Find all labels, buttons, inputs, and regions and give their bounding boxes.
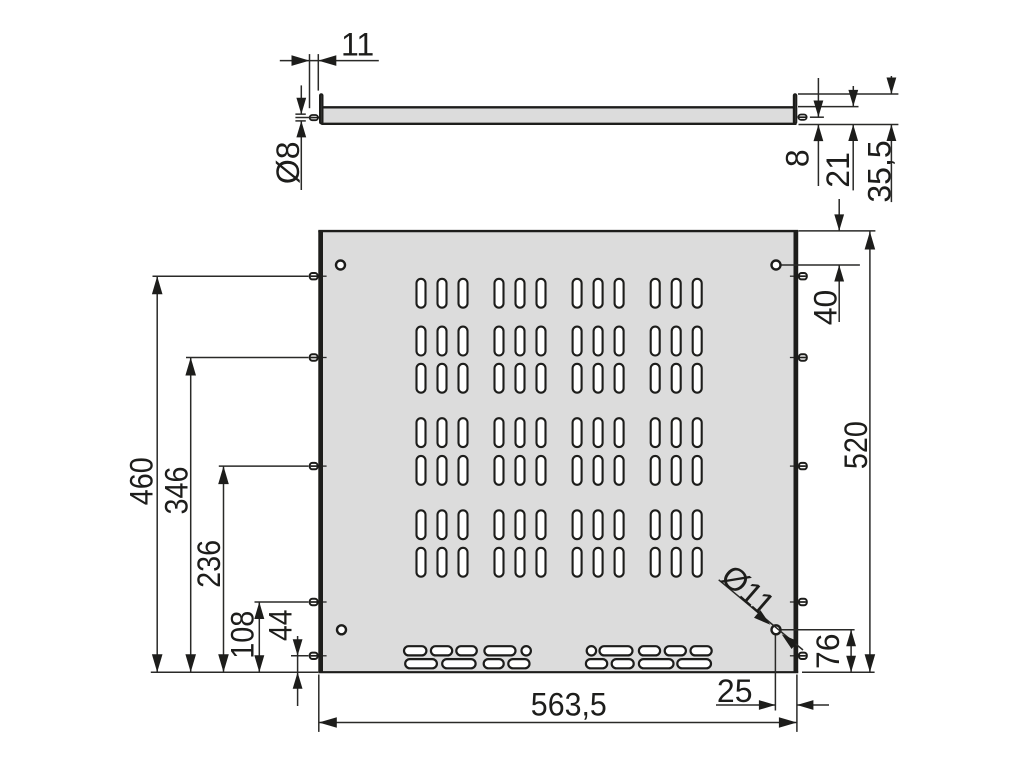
- dimension 236 bottom arrowhead: [218, 654, 229, 672]
- dimension 76 line: [850, 630, 852, 672]
- dimension 460 bottom arrowhead: [152, 654, 163, 672]
- front view bottom edge: [318, 671, 798, 673]
- side view top-of-plate reference line: [798, 106, 859, 108]
- dimension 25 left arrowhead: [759, 700, 776, 710]
- svg-text:236: 236: [191, 540, 227, 588]
- bottom cable slots left group: [404, 646, 531, 668]
- dimension 40 label: [808, 290, 844, 326]
- dimension 8 label: [779, 149, 815, 167]
- dimension 460 top arrowhead: [152, 276, 163, 294]
- dimension Ø8 vertical line below: [300, 121, 302, 190]
- svg-text:35,5: 35,5: [862, 140, 898, 202]
- dimension 44 line: [297, 636, 299, 706]
- dimension 563,5 right arrowhead: [779, 717, 797, 728]
- dimension 11 extension line at bracket face: [317, 54, 319, 91]
- bottom-left corner hole: [337, 625, 346, 634]
- pin 1 extension line: [153, 275, 309, 277]
- side view right end bracket tab: [794, 94, 796, 123]
- side view left pin (Ø8 stud): [310, 115, 320, 120]
- svg-text:21: 21: [820, 152, 856, 188]
- dimension 563,5 line: [319, 722, 797, 724]
- svg-text:40: 40: [808, 290, 844, 326]
- dimension 563,5 label: [531, 687, 607, 723]
- dimension 11 extension line at pin tip: [309, 54, 311, 108]
- dimension 35,5 upper arrowhead: [887, 78, 897, 95]
- front view top edge: [318, 230, 798, 232]
- dimension 40 upper line: [838, 199, 840, 231]
- dimension 25 left line: [716, 704, 775, 706]
- front view right flange edge (thick band): [794, 231, 799, 673]
- svg-text:25: 25: [717, 673, 753, 709]
- dimension 25 right arrowhead: [797, 700, 814, 710]
- dimension 21 upper line: [852, 86, 854, 106]
- dimension 11 dimension line: [280, 60, 379, 62]
- svg-text:76: 76: [810, 633, 846, 669]
- dimension 35,5 lower line: [890, 125, 892, 203]
- dimension 44 lower arrowhead: [293, 672, 303, 689]
- dimension 108 top arrowhead: [254, 602, 264, 619]
- pin 5 extension line: [291, 655, 309, 657]
- dimension 520 top arrowhead: [865, 232, 876, 250]
- svg-text:460: 460: [124, 457, 160, 505]
- dimension 21 lower arrowhead: [848, 125, 858, 142]
- ventilation slot field (4 groups x 3 cols x 7 rows): [417, 279, 702, 577]
- dimension 8 upper arrowhead: [814, 101, 824, 118]
- dimension 236 line: [223, 466, 225, 672]
- left edge extension line (bottom): [318, 675, 320, 732]
- dimension 44 upper arrowhead: [293, 639, 303, 656]
- dimension 35,5 upper line: [890, 76, 892, 94]
- side view top-of-bracket reference line: [798, 93, 898, 95]
- pin 3 extension line: [219, 465, 309, 467]
- bottom-right corner hole Ø11: [772, 625, 781, 634]
- dimension 346 top arrowhead: [185, 358, 196, 376]
- top-right hole centerline extension: [782, 264, 860, 266]
- svg-text:563,5: 563,5: [531, 687, 607, 723]
- bottom cable slots right group: [586, 646, 712, 668]
- dimension Ø8 upper arrowhead: [296, 98, 306, 115]
- dimension 108 line: [258, 602, 260, 672]
- dimension 11 right arrowhead: [318, 55, 336, 66]
- dimension 108 bottom arrowhead: [254, 655, 264, 672]
- plate bottom extension line (right): [802, 671, 875, 673]
- dimension 11 label: [341, 26, 374, 62]
- right pin centerline tick: [810, 116, 824, 118]
- plate top extension line (right): [799, 230, 876, 232]
- left edge mounting pins (5): [310, 273, 327, 659]
- bottom-right hole centerline extension: [782, 629, 855, 631]
- dimension 44 label: [263, 609, 299, 641]
- dimension Ø8 vertical line above: [300, 85, 302, 114]
- svg-text:Ø8: Ø8: [270, 141, 306, 184]
- dimension 346 label: [159, 467, 195, 515]
- dimension 520 line: [869, 232, 871, 673]
- dimension Ø8 tick at pin bottom: [295, 120, 305, 122]
- top-left corner hole: [336, 261, 345, 270]
- dimension 35,5 lower arrowhead: [887, 125, 897, 142]
- Ø11 label: [714, 558, 781, 623]
- dimension 520 label: [838, 421, 874, 469]
- side view plate body (gray bar): [321, 107, 796, 124]
- Ø11 leader arrowhead (lower, pointing at hole): [782, 634, 798, 649]
- Ø11 hole vertical extension line: [774, 636, 776, 711]
- dimension 8 lower line: [817, 125, 819, 186]
- dimension 8 upper line: [817, 78, 819, 117]
- dimension Ø8 label: [270, 141, 306, 184]
- svg-text:346: 346: [159, 467, 195, 515]
- dimension 25 right line: [797, 704, 829, 706]
- dimension 76 label: [810, 633, 846, 669]
- top-right corner hole: [772, 261, 781, 270]
- dimension 76 bottom arrowhead: [846, 656, 856, 673]
- dimension 346 line: [190, 358, 192, 673]
- dimension 236 label: [191, 540, 227, 588]
- dimension 346 bottom arrowhead: [185, 654, 196, 672]
- pin 2 extension line: [186, 357, 309, 359]
- dimension 21 upper arrowhead: [848, 90, 858, 107]
- dimension 520 bottom arrowhead: [865, 654, 876, 672]
- dimension 21 lower line: [852, 125, 854, 191]
- dimension 8 lower arrowhead: [814, 125, 824, 142]
- svg-text:8: 8: [779, 149, 815, 167]
- dimension 563,5 left arrowhead: [319, 717, 337, 728]
- svg-text:520: 520: [838, 421, 874, 469]
- dimension Ø8 lower arrowhead: [296, 121, 306, 137]
- side view bottom reference line: [799, 124, 899, 126]
- svg-text:108: 108: [224, 611, 260, 659]
- dimension Ø8 tick at pin top: [295, 113, 305, 115]
- dimension 460 line: [156, 276, 158, 672]
- right edge mounting pins (5): [790, 273, 807, 659]
- svg-text:44: 44: [263, 609, 299, 641]
- dimension 40 lower line: [838, 265, 840, 322]
- dimension 25 label: [717, 673, 753, 709]
- front view plate face (gray): [318, 230, 798, 673]
- side view left end bracket tab: [320, 94, 322, 123]
- Ø11 leader line: [719, 580, 803, 650]
- dimension 236 top arrowhead: [218, 466, 229, 484]
- dimension 11 left arrowhead: [292, 55, 310, 66]
- side view right pin (stud): [798, 115, 807, 120]
- dimension 108 label: [224, 611, 260, 659]
- dimension 460 label: [124, 457, 160, 505]
- dimension 35,5 label: [862, 140, 898, 202]
- svg-text:11: 11: [341, 26, 374, 62]
- right edge extension line (bottom): [796, 675, 798, 732]
- dimension 40 lower arrowhead: [834, 265, 844, 282]
- dimension 76 top arrowhead: [846, 630, 856, 647]
- bottom baseline extension (left): [151, 671, 318, 673]
- left pin centerline: [295, 117, 312, 119]
- Ø11 leader arrowhead (upper, pointing at hole): [754, 610, 770, 625]
- dimension 21 label: [820, 152, 856, 188]
- front view left flange edge (thick band): [318, 231, 323, 673]
- pin 4 extension line: [255, 601, 309, 603]
- dimension 40 upper arrowhead: [834, 214, 844, 231]
